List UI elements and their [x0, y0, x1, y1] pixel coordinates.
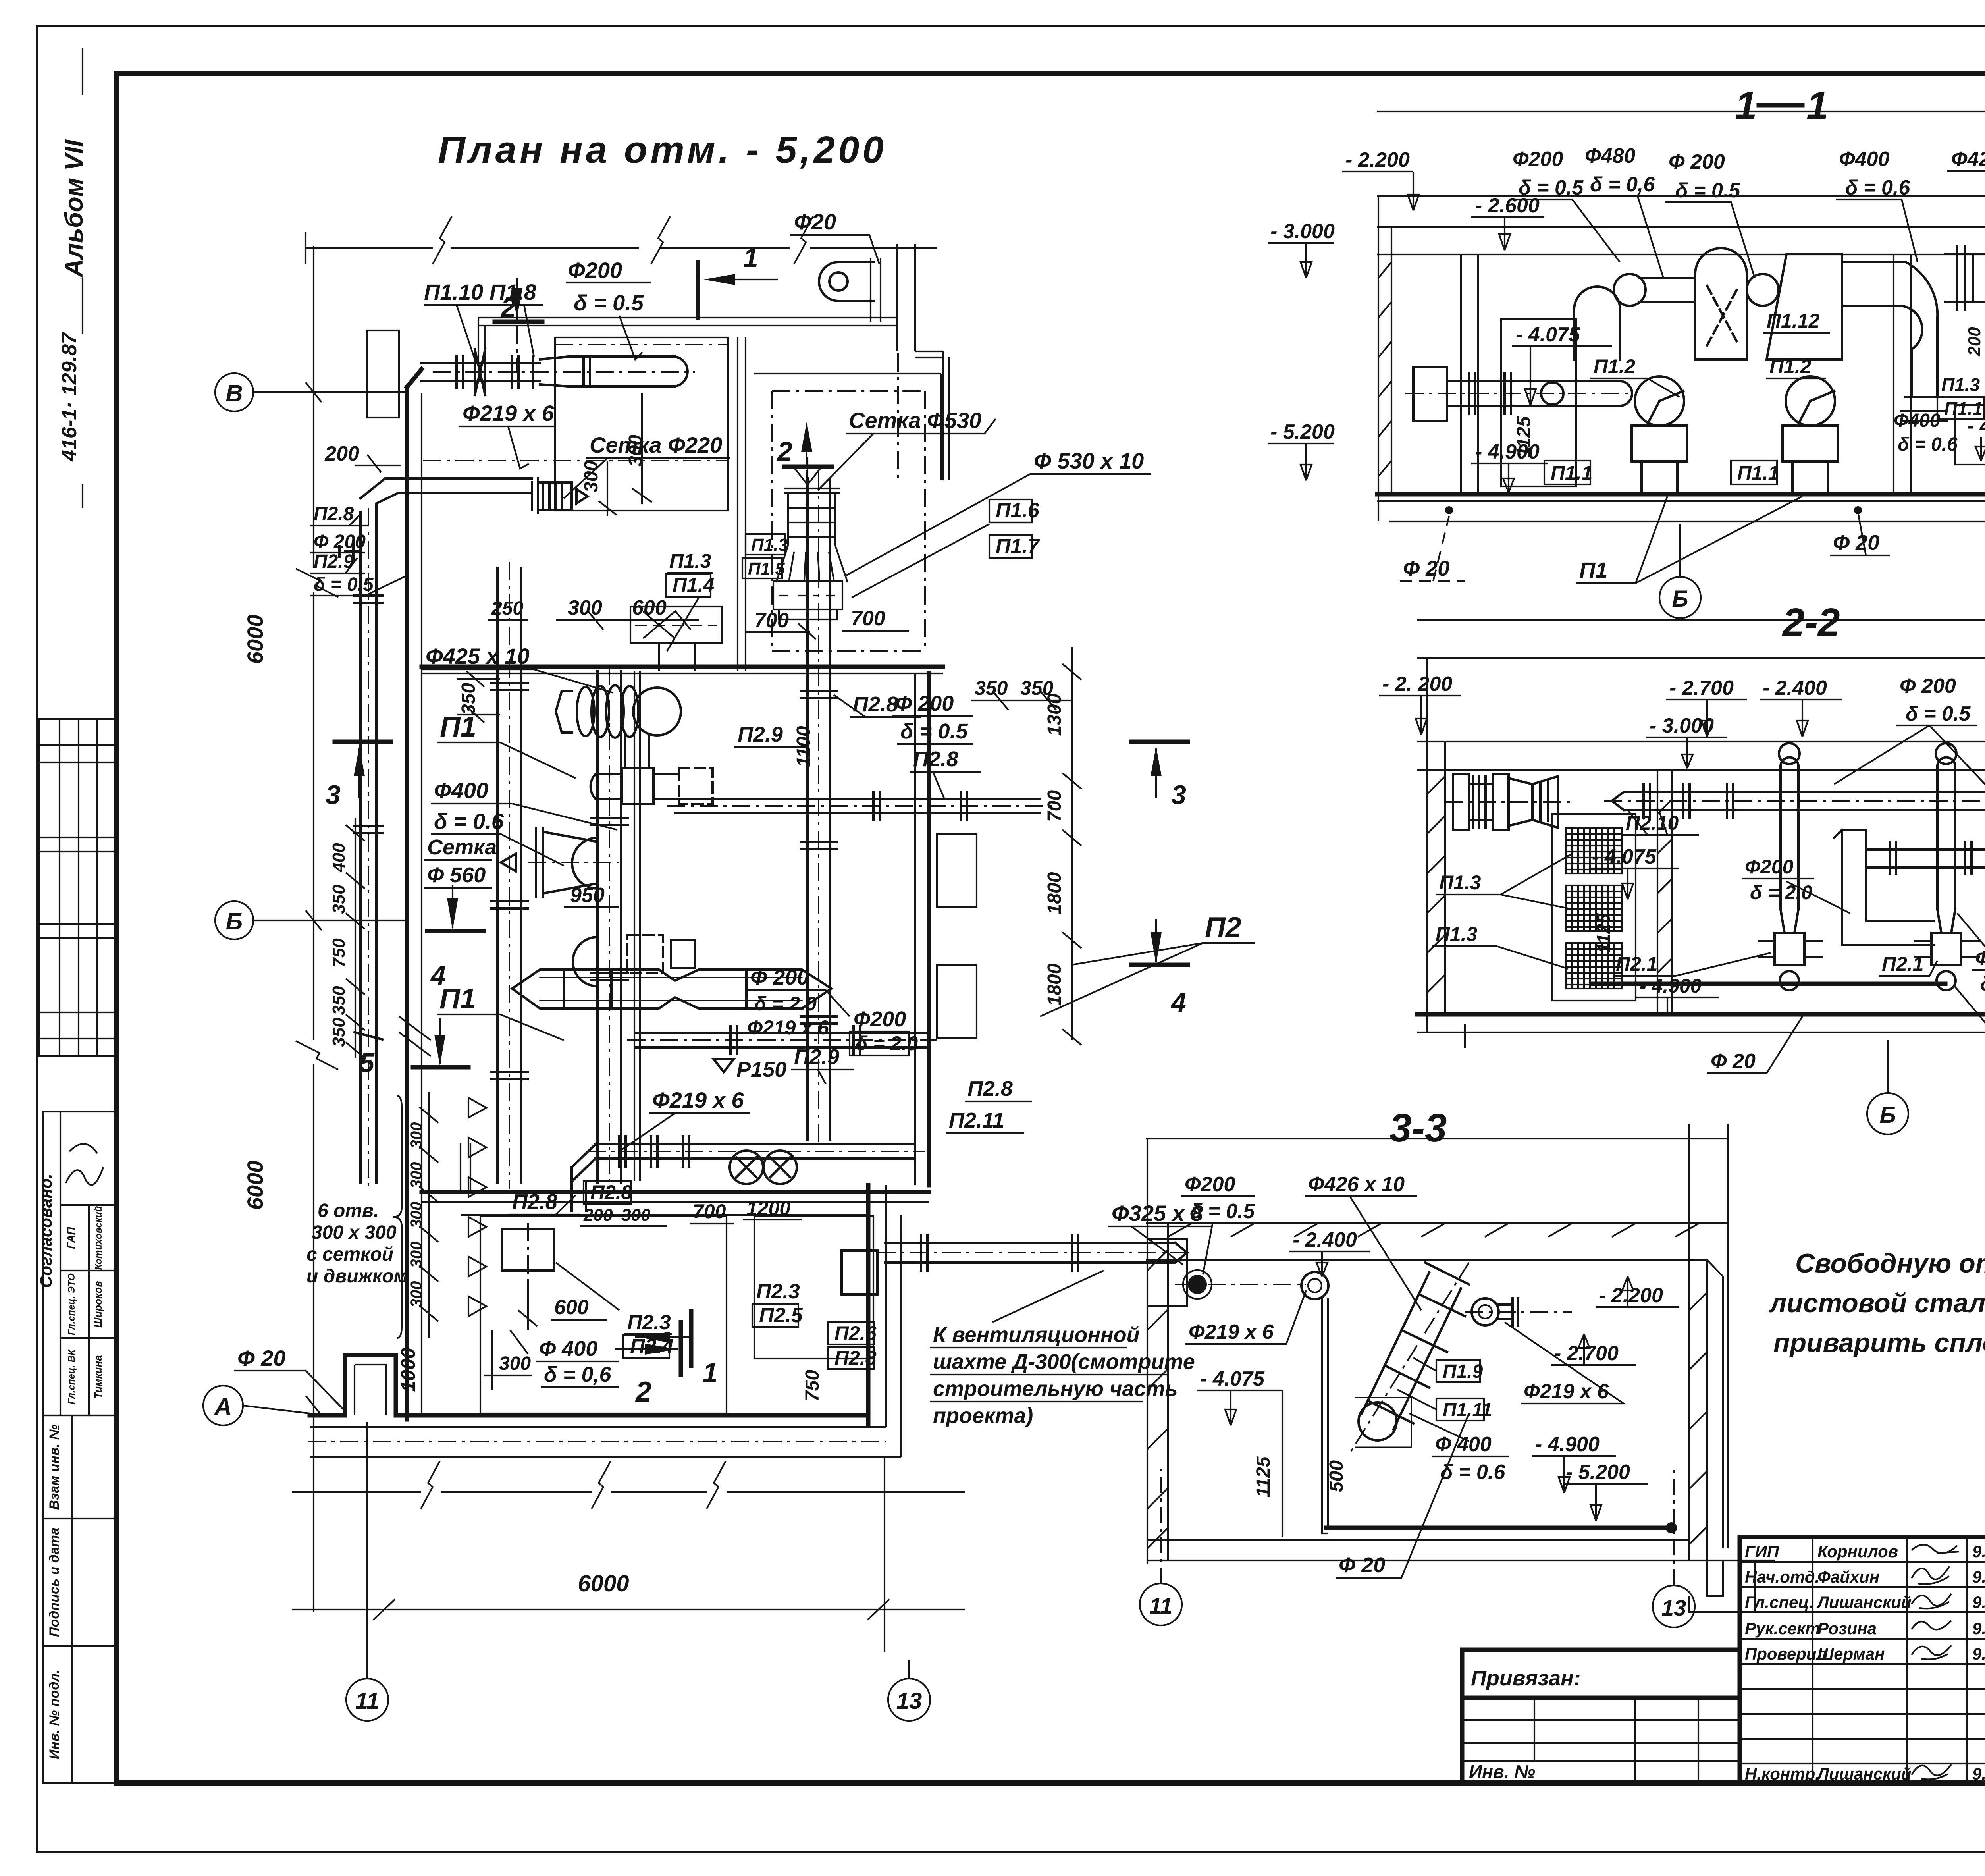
svg-text:11: 11 [1149, 1593, 1172, 1618]
svg-text:Ф426 х 10: Ф426 х 10 [1308, 1173, 1405, 1196]
ceiling band [1146, 1223, 1728, 1260]
svg-text:3: 3 [1171, 780, 1186, 810]
labels П1.6 П1.7 [989, 499, 1032, 523]
columns [1657, 770, 1672, 1014]
svg-text:1300: 1300 [1044, 693, 1065, 736]
svg-text:Розина: Розина [1817, 1619, 1877, 1638]
svg-text:Ф200: Ф200 [1513, 148, 1563, 171]
svg-text:- 2.400: - 2.400 [1763, 677, 1827, 700]
bottom room right wall [866, 1185, 871, 1426]
svg-text:Ф425 х 10: Ф425 х 10 [426, 644, 530, 669]
svg-text:шахте Д-300(смотрите: шахте Д-300(смотрите [933, 1350, 1195, 1374]
svg-text:Сетка Ф530: Сетка Ф530 [849, 408, 981, 433]
svg-text:1125: 1125 [1593, 913, 1614, 952]
top line [1146, 1138, 1728, 1139]
svg-text:Рук.сект: Рук.сект [1745, 1619, 1820, 1638]
svg-text:2: 2 [777, 436, 792, 467]
svg-text:1000: 1000 [397, 1348, 419, 1392]
svg-text:П2.1: П2.1 [1882, 953, 1923, 975]
svg-text:1800: 1800 [1044, 872, 1065, 914]
svg-text:- 4.900: - 4.900 [1535, 1433, 1600, 1456]
svg-text:П2.8: П2.8 [314, 503, 354, 524]
svg-text:А: А [214, 1393, 231, 1420]
svg-text:δ = 0.6: δ = 0.6 [1845, 176, 1910, 199]
svg-text:δ = 2.0: δ = 2.0 [1980, 973, 1985, 995]
Привязан table [1462, 1650, 1740, 1783]
svg-text:Ф200: Ф200 [1745, 856, 1794, 878]
svg-text:Гл.спец. ВК: Гл.спец. ВК [66, 1349, 77, 1404]
svg-text:П2.9: П2.9 [794, 1045, 839, 1069]
6 отв grille triangles [468, 1098, 486, 1316]
ring pipe circle [1301, 1272, 1328, 1299]
dash-dot line y1160 [423, 460, 728, 461]
svg-text:- 2.700: - 2.700 [1669, 677, 1734, 700]
svg-text:δ = 2.0: δ = 2.0 [856, 1032, 918, 1055]
svg-text:9.86: 9.86 [1972, 1645, 1985, 1663]
svg-text:Файхин: Файхин [1817, 1568, 1879, 1586]
svg-text:Ф200: Ф200 [854, 1007, 906, 1031]
left vertical dim line [296, 246, 338, 1612]
Б axis circle [1659, 577, 1701, 618]
svg-text:П1: П1 [440, 711, 476, 743]
svg-text:- 4.075: - 4.075 [1516, 323, 1580, 346]
П2 right riser [801, 478, 837, 1139]
svg-text:416-1· 129.87: 416-1· 129.87 [58, 332, 81, 462]
svg-text:6000: 6000 [578, 1571, 629, 1596]
bottom room top wall inner line [461, 1214, 868, 1216]
svg-text:9.86: 9.86 [1972, 1568, 1985, 1586]
svg-text:6 отв.: 6 отв. [318, 1200, 379, 1221]
svg-text:П1.4: П1.4 [673, 574, 714, 596]
svg-text:П1.6: П1.6 [996, 499, 1040, 522]
svg-text:Проверил: Проверил [1745, 1645, 1827, 1663]
room R1 (upper) [555, 337, 728, 511]
svg-text:1100: 1100 [793, 726, 814, 767]
svg-text:350: 350 [975, 677, 1008, 699]
svg-text:Ф 200: Ф 200 [314, 531, 366, 552]
П2 vertical duct (left riser) [491, 568, 528, 1183]
svg-text:П2.9: П2.9 [738, 723, 783, 746]
svg-text:П2.5: П2.5 [759, 1304, 803, 1327]
svg-text:1: 1 [1806, 83, 1829, 128]
main horizontal pipe [1612, 784, 1985, 818]
svg-text:- 2.200: - 2.200 [1345, 148, 1410, 172]
svg-text:- 2.700: - 2.700 [1554, 1342, 1619, 1365]
svg-text:Ф219 х 6: Ф219 х 6 [1189, 1321, 1274, 1344]
svg-text:- 2.200: - 2.200 [1599, 1284, 1663, 1307]
svg-text:400: 400 [329, 843, 349, 873]
floor [1417, 1012, 1985, 1017]
svg-text:Сетка: Сетка [427, 835, 497, 859]
section mark 4 left [427, 929, 484, 933]
svg-text:П1.3: П1.3 [751, 535, 788, 555]
svg-text:Ф400: Ф400 [1839, 148, 1889, 171]
svg-text:6000: 6000 [243, 1161, 268, 1210]
svg-text:300: 300 [408, 1242, 425, 1268]
left niche [1147, 1239, 1187, 1306]
svg-text:- 4.075: - 4.075 [1200, 1367, 1265, 1390]
hatch left wall section 1-1 [1378, 262, 1985, 476]
svg-text:700: 700 [1044, 790, 1065, 822]
svg-text:П1.3: П1.3 [1941, 374, 1980, 395]
svg-text:П1.2: П1.2 [1594, 355, 1636, 378]
svg-text:- 4.900: - 4.900 [1640, 975, 1702, 997]
svg-text:В: В [225, 380, 243, 407]
wall above keyhole [871, 258, 881, 322]
wall between R1 R2 [738, 337, 746, 671]
axis circle В [215, 373, 406, 411]
svg-text:350: 350 [329, 986, 349, 1015]
svg-text:Ф 20: Ф 20 [1833, 531, 1879, 555]
building top wall [478, 318, 896, 326]
svg-text:Корнилов: Корнилов [1817, 1542, 1898, 1561]
svg-text:600: 600 [554, 1296, 589, 1319]
П1 intake silencer (bottom) [512, 970, 831, 1008]
left chain dimension line [346, 818, 365, 1058]
svg-text:1125: 1125 [1253, 1456, 1274, 1498]
lower dome fitting on Ф400 duct [573, 935, 695, 986]
svg-text:Ф200: Ф200 [1975, 947, 1985, 969]
svg-text:700: 700 [851, 607, 885, 630]
axis circle Б [215, 901, 407, 939]
thin riser pair right of Ф400 duct [634, 671, 640, 1181]
svg-text:Б: Б [1672, 586, 1688, 612]
axis circle 13 [888, 1679, 930, 1721]
svg-text:Гл.спец. ЭТО: Гл.спец. ЭТО [66, 1273, 77, 1335]
svg-text:500: 500 [1326, 1460, 1347, 1492]
heater block [630, 607, 722, 643]
svg-text:Тимкина: Тимкина [92, 1355, 104, 1398]
svg-text:1: 1 [743, 243, 758, 273]
svg-text:δ = 0.6: δ = 0.6 [434, 809, 504, 834]
svg-text:П1.1: П1.1 [1551, 462, 1592, 484]
svg-text:проекта): проекта) [933, 1404, 1033, 1428]
fan 2 [1783, 376, 1838, 494]
П2.1 pump assemblies [1759, 933, 1979, 990]
rooms in machine area [480, 1216, 727, 1413]
svg-text:листовой сталью δ = 2 мм.: листовой сталью δ = 2 мм. Листы заделки [1769, 1288, 1985, 1318]
svg-text:750: 750 [802, 1370, 823, 1402]
svg-text:Сетка Ф220: Сетка Ф220 [590, 432, 722, 457]
right wall slant detail [1707, 1260, 1723, 1548]
svg-text:Ф400: Ф400 [1894, 410, 1941, 431]
left wall [1427, 658, 1445, 1032]
signatures squiggles in sig column [1912, 1544, 1959, 1779]
svg-text:Н.контр.: Н.контр. [1745, 1764, 1820, 1783]
svg-text:и движком: и движком [306, 1266, 408, 1287]
chamber rect [1501, 319, 1576, 486]
svg-text:Ф 20: Ф 20 [1339, 1553, 1385, 1577]
bottom dimension 6000 [292, 1422, 965, 1679]
ceiling band [1377, 227, 1985, 255]
floor lines [1377, 492, 1985, 497]
section mark 4 right [1131, 963, 1188, 967]
svg-text:δ = 0,6: δ = 0,6 [1590, 173, 1655, 196]
svg-text:Инв. №: Инв. № [1469, 1761, 1535, 1782]
svg-text:П2.8: П2.8 [913, 747, 958, 771]
svg-text:1125: 1125 [1513, 416, 1534, 457]
svg-text:3-3: 3-3 [1389, 1106, 1447, 1150]
svg-text:9.86: 9.86 [1972, 1619, 1985, 1638]
svg-text:Ф 400: Ф 400 [539, 1337, 597, 1361]
svg-text:200: 200 [1965, 327, 1984, 357]
svg-text:Ф426 х 10: Ф426 х 10 [1951, 148, 1985, 171]
svg-text:Нач.отд.: Нач.отд. [1745, 1568, 1819, 1586]
left wall [1147, 1139, 1168, 1564]
leader underlines top [1268, 171, 1985, 492]
chain dim with 6 отв triangles [419, 1092, 438, 1338]
svg-text:350: 350 [458, 683, 479, 715]
svg-text:Ф 20: Ф 20 [1403, 557, 1449, 580]
svg-text:П2.8: П2.8 [967, 1077, 1013, 1101]
axis circles 11 13 below section 3-3 [1140, 1583, 1182, 1625]
svg-text:П2.10: П2.10 [1626, 812, 1679, 834]
hatch walls section 2-2 [1427, 776, 1985, 993]
level labels top row [1270, 145, 1985, 463]
svg-text:350: 350 [329, 885, 349, 914]
svg-text:δ = 0,6: δ = 0,6 [544, 1363, 612, 1386]
room R2 bottom wall [422, 665, 943, 669]
svg-text:К вентиляционной: К вентиляционной [933, 1323, 1140, 1347]
П1 fan flexible coil [556, 685, 681, 738]
svg-text:Ф 200: Ф 200 [895, 692, 954, 715]
title block frame [1740, 1537, 1985, 1783]
svg-text:- 5.200: - 5.200 [1566, 1461, 1630, 1484]
svg-text:строительную часть: строительную часть [933, 1377, 1178, 1401]
axis circle 11 [346, 1679, 388, 1721]
svg-text:П2.1: П2.1 [1616, 953, 1657, 975]
svg-text:ГИП: ГИП [1745, 1542, 1779, 1561]
svg-text:Ф400: Ф400 [434, 778, 488, 803]
svg-text:950: 950 [570, 884, 605, 907]
svg-text:2: 2 [635, 1376, 651, 1408]
svg-text:П2.3: П2.3 [756, 1280, 800, 1303]
svg-text:Лишанский: Лишанский [1816, 1593, 1912, 1612]
svg-text:Инв. № подл.: Инв. № подл. [47, 1670, 62, 1759]
top slab lines [1417, 619, 1985, 621]
svg-text:П2: П2 [1205, 912, 1241, 943]
svg-text:300: 300 [568, 596, 602, 619]
svg-text:Б: Б [226, 908, 243, 935]
Ф400 vertical duct [591, 671, 628, 1183]
svg-text:ГАП: ГАП [65, 1226, 77, 1249]
left stamp: Согласовано block [43, 1112, 115, 1415]
small unit square [842, 1251, 877, 1294]
svg-text:Альбом VII: Альбом VII [60, 139, 88, 278]
svg-text:Ф 560: Ф 560 [427, 863, 486, 887]
svg-text:Привязан:: Привязан: [1471, 1666, 1581, 1690]
keyhole pipe anchor [819, 262, 873, 301]
svg-text:11: 11 [355, 1688, 379, 1714]
svg-text:δ = 0.5: δ = 0.5 [900, 719, 968, 743]
П1.6 air intake funnel [773, 457, 848, 619]
svg-text:П1.1: П1.1 [1737, 462, 1779, 484]
top dimension line with breaks [306, 216, 937, 264]
svg-text:План на отм. - 5,200: План на отм. - 5,200 [438, 129, 887, 171]
svg-text:4: 4 [1170, 987, 1186, 1018]
left machine assembly [1453, 774, 1558, 830]
svg-text:приварить сплошным швом: приварить сплошным швом по периметру [1773, 1328, 1985, 1358]
svg-text:Ф480: Ф480 [1585, 145, 1635, 168]
svg-text:с сеткой: с сеткой [306, 1244, 393, 1265]
right niches [937, 834, 977, 907]
svg-text:δ = 0.6: δ = 0.6 [1440, 1461, 1505, 1484]
svg-text:700: 700 [693, 1200, 726, 1222]
Г-shaped duct middle [1834, 830, 1985, 945]
section mark 1 bottom [689, 1311, 694, 1366]
svg-text:9.86: 9.86 [1972, 1764, 1985, 1783]
svg-text:2: 2 [500, 293, 516, 323]
svg-text:П1.5: П1.5 [748, 559, 785, 578]
svg-text:Подпись и дата: Подпись и дата [47, 1527, 62, 1637]
svg-text:300: 300 [408, 1281, 425, 1308]
svg-text:300: 300 [408, 1202, 425, 1228]
svg-text:2-2: 2-2 [1782, 600, 1840, 645]
svg-text:П1.3: П1.3 [1436, 923, 1478, 945]
П2.6 П2.8 boxed [828, 1322, 874, 1344]
two risers with dome tops [1779, 743, 1956, 933]
svg-text:1200: 1200 [746, 1197, 790, 1219]
signature squiggles [66, 1144, 103, 1185]
vertical thin pipe [1322, 1298, 1328, 1527]
horizontal pipe y2030 [675, 792, 1040, 820]
svg-text:Б: Б [1879, 1102, 1896, 1128]
fan 1 [1632, 376, 1687, 494]
svg-text:П1: П1 [1579, 557, 1607, 582]
svg-text:300: 300 [499, 1353, 531, 1374]
svg-text:1: 1 [703, 1357, 718, 1388]
Ф20 dim bottom left [1464, 1024, 1466, 1048]
svg-text:δ = 0.5: δ = 0.5 [574, 290, 644, 315]
svg-text:Р150: Р150 [736, 1058, 786, 1082]
svg-text:250: 250 [491, 598, 523, 619]
svg-text:П1.3: П1.3 [669, 550, 711, 572]
labels П1.3 П1.5 boxed (left of funnel) [746, 534, 785, 555]
leaders for level labels [1379, 696, 1985, 864]
svg-text:Лишанский: Лишанский [1816, 1764, 1912, 1783]
left flanged pipe assembly [1413, 367, 1632, 421]
П2 riser along wall [355, 478, 532, 1183]
svg-text:П2.6: П2.6 [834, 1322, 877, 1344]
svg-text:1: 1 [1735, 83, 1757, 128]
svg-text:1800: 1800 [1044, 963, 1065, 1006]
svg-text:П1.9: П1.9 [1443, 1361, 1483, 1382]
section mark 1 (top) [696, 262, 700, 318]
svg-text:Ф219 х 6: Ф219 х 6 [1524, 1380, 1609, 1403]
svg-text:δ = 0.5: δ = 0.5 [314, 574, 374, 595]
П2.8 boxed (machine room) [584, 1181, 631, 1204]
svg-text:Согласовано.: Согласовано. [37, 1174, 55, 1288]
svg-text:Ф 400: Ф 400 [1435, 1433, 1492, 1456]
title block signature rows text [1745, 1542, 1985, 1783]
bottom pipe [1326, 1526, 1671, 1530]
svg-text:13: 13 [896, 1688, 922, 1714]
svg-text:П2.8: П2.8 [590, 1181, 632, 1203]
svg-text:13: 13 [1661, 1595, 1686, 1620]
svg-text:П2.11: П2.11 [949, 1109, 1004, 1132]
svg-text:6000: 6000 [243, 615, 268, 664]
axis В wall block [367, 330, 399, 418]
svg-text:- 4.075: - 4.075 [1592, 845, 1657, 868]
svg-text:200: 200 [324, 442, 359, 465]
brace for 6 отв [393, 1096, 402, 1338]
room R2 dash-dot inner [772, 391, 925, 651]
top duct П1.10-П1.8 run [422, 349, 688, 395]
horizontal flanged pipe y2900 [572, 1136, 913, 1211]
svg-text:300: 300 [408, 1162, 425, 1189]
svg-text:П1: П1 [439, 983, 476, 1015]
bottom room walls [310, 1355, 868, 1415]
svg-text:Шерман: Шерман [1817, 1645, 1885, 1663]
svg-text:9.86: 9.86 [1972, 1593, 1985, 1612]
left stamp: bottom boxes [43, 1415, 115, 1783]
right wall of plan [927, 673, 931, 1185]
svg-text:Ф 200: Ф 200 [1669, 150, 1725, 174]
svg-text:750: 750 [329, 938, 349, 968]
dots on floor [1445, 506, 1453, 514]
section mark 5 left [413, 1065, 468, 1070]
svg-text:300 х 300: 300 х 300 [312, 1222, 397, 1243]
svg-text:- 3.000: - 3.000 [1270, 220, 1335, 243]
section mark 2 top [495, 320, 542, 324]
svg-text:П1.7: П1.7 [996, 535, 1040, 558]
П1 tee below [591, 735, 713, 804]
Р150 drain [714, 1059, 734, 1072]
building left wall [405, 387, 409, 1419]
right vertical dim chain [1062, 647, 1081, 1045]
svg-text:3: 3 [326, 780, 341, 810]
svg-text:Котиховский: Котиховский [93, 1206, 104, 1270]
svg-text:δ = 0.6: δ = 0.6 [1898, 434, 1958, 455]
svg-text:Ф20: Ф20 [794, 209, 836, 234]
svg-text:600: 600 [632, 596, 667, 619]
bottom channel line [1592, 982, 1945, 986]
room R2 top boundary [754, 373, 941, 374]
svg-text:Ф200: Ф200 [568, 258, 622, 283]
Сетка Ф220 fitting [532, 478, 588, 513]
ring pipe circle 2 [1472, 1298, 1499, 1325]
svg-text:- 4.900: - 4.900 [1967, 415, 1985, 438]
svg-text:Ф 200: Ф 200 [1900, 675, 1956, 698]
floor [1147, 1540, 1775, 1560]
right wall/columns [1689, 1124, 1707, 1560]
heater box bottom [502, 1229, 554, 1271]
axis circle А [203, 1386, 322, 1425]
left margin dash-dot tick [82, 48, 83, 508]
Сетка Ф560 funnel (cone left) [501, 828, 597, 897]
svg-text:Взам инв. №: Взам инв. № [47, 1424, 62, 1510]
svg-text:Ф200: Ф200 [1185, 1173, 1235, 1196]
slab lines top [1377, 111, 1985, 112]
П1.3 filter boxes left [1552, 814, 1636, 1001]
svg-text:δ = 2.0: δ = 2.0 [1750, 881, 1812, 904]
left stamp table (upper) [39, 719, 115, 1056]
black dot pipe end left [1188, 1275, 1207, 1294]
svg-text:Ф219 х 6: Ф219 х 6 [747, 1016, 829, 1039]
svg-text:- 2.600: - 2.600 [1475, 194, 1540, 217]
svg-text:- 2. 200: - 2. 200 [1382, 673, 1452, 696]
section mark 2 (upper) [784, 465, 832, 469]
upper duct run [1574, 246, 1985, 421]
section mark 3 left [335, 740, 391, 744]
valve on duct [339, 542, 361, 561]
svg-text:9.86: 9.86 [1972, 1542, 1985, 1561]
svg-text:Ф219 х 6: Ф219 х 6 [463, 401, 554, 426]
П1.1 boxed labels [1544, 461, 1590, 484]
svg-text:300: 300 [408, 1122, 425, 1149]
title block left signature table [1740, 1537, 1985, 1783]
section mark 3 right [1131, 740, 1188, 744]
